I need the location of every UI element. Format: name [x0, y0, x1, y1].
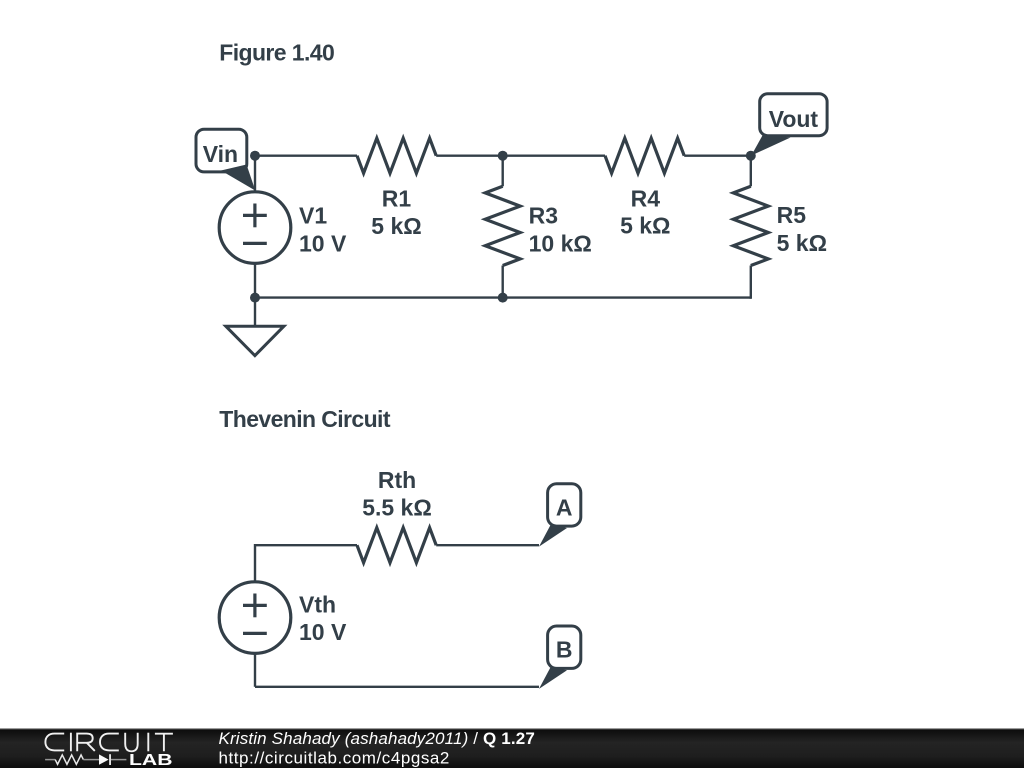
- svg-text:LAB: LAB: [129, 752, 173, 768]
- svg-text:Vth: Vth: [299, 592, 336, 618]
- svg-text:Figure 1.40: Figure 1.40: [219, 40, 334, 66]
- logo diode triangle: [99, 754, 109, 764]
- svg-text:R3: R3: [529, 203, 558, 229]
- svg-text:V1: V1: [299, 203, 327, 229]
- resistor R4: [605, 138, 684, 173]
- ground: [226, 326, 284, 355]
- svg-text:Vin: Vin: [203, 141, 238, 167]
- Vout flag box: [760, 94, 827, 136]
- junction dot bottom-left: [250, 293, 260, 303]
- logo resistor-diode line: [45, 759, 55, 761]
- resistor R1: [357, 138, 436, 173]
- svg-text:http://circuitlab.com/c4pgsa2: http://circuitlab.com/c4pgsa2: [219, 748, 450, 767]
- svg-text:Vout: Vout: [769, 106, 819, 132]
- Vout flag tail: [751, 135, 790, 156]
- logo diode bar: [109, 754, 111, 765]
- svg-text:R4: R4: [631, 185, 661, 211]
- svg-text:10 V: 10 V: [299, 230, 347, 256]
- svg-text:5 kΩ: 5 kΩ: [777, 230, 827, 256]
- svg-text:10 kΩ: 10 kΩ: [529, 230, 592, 256]
- wire to ground: [254, 298, 256, 326]
- resistor R5 vertical: [750, 156, 752, 187]
- wire top rail node1 to R1: [255, 154, 357, 156]
- junction dot node2: [498, 151, 508, 161]
- svg-text:Rth: Rth: [378, 467, 416, 493]
- junction dot node3: [746, 151, 756, 161]
- svg-text:5 kΩ: 5 kΩ: [371, 213, 421, 239]
- bottom rail to B: [255, 686, 539, 688]
- svg-text:5 kΩ: 5 kΩ: [620, 213, 670, 239]
- wire R1 to node2: [436, 154, 503, 156]
- svg-text:Thevenin Circuit: Thevenin Circuit: [219, 406, 391, 432]
- CircuitLab logo: CIRCUIT letters: [45, 733, 172, 752]
- junction dot node1: [250, 151, 260, 161]
- wire Rth to A: [436, 544, 539, 546]
- voltage source V1: [219, 192, 291, 264]
- wire node1 down to V1: [254, 156, 256, 192]
- svg-text:R1: R1: [382, 185, 412, 211]
- wire V1 to bottom rail: [254, 263, 256, 297]
- resistor Rth: [357, 528, 436, 563]
- wire node2 to R4: [503, 154, 605, 156]
- svg-text:5.5 kΩ: 5.5 kΩ: [362, 495, 432, 521]
- svg-text:Kristin Shahady (ashahady2011): Kristin Shahady (ashahady2011) / Q 1.27: [219, 729, 535, 748]
- node B flag tail: [539, 667, 567, 689]
- node A flag box: [548, 484, 581, 526]
- svg-text:R5: R5: [777, 202, 807, 228]
- svg-text:10 V: 10 V: [299, 619, 347, 645]
- Vin flag tail: [221, 165, 255, 191]
- node B flag box: [548, 626, 581, 668]
- svg-text:A: A: [556, 495, 573, 521]
- voltage source Vth: [219, 582, 291, 654]
- node A flag tail: [539, 525, 567, 547]
- wire top-left corner to Rth: [255, 545, 357, 582]
- Vin flag box: [196, 129, 247, 172]
- junction dot bottom-mid: [498, 293, 508, 303]
- resistor R3 vertical: [502, 156, 504, 187]
- wire R4 to node3: [684, 154, 751, 156]
- bottom rail: [255, 296, 751, 298]
- svg-text:B: B: [556, 637, 573, 663]
- wire Vth to bottom rail: [254, 653, 256, 686]
